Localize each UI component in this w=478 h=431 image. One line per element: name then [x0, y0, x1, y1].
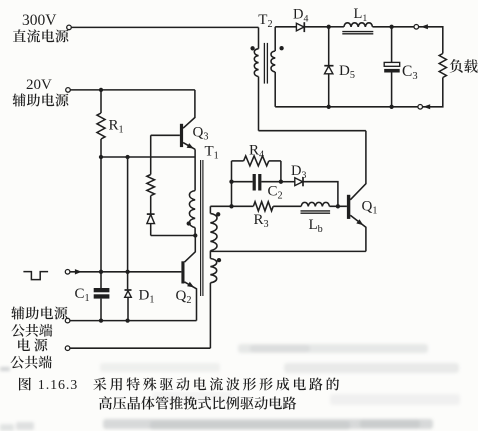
- resistor R4: [232, 143, 281, 166]
- wire L1 to C3 node: [373, 26, 414, 28]
- wire T2 secondary top: [275, 26, 296, 28]
- diode D3: [281, 163, 338, 206]
- transformer T1 secondary upper winding: [210, 206, 217, 251]
- arrow current into output: [421, 24, 428, 29]
- node T1 primary bottom: [193, 233, 197, 237]
- terminal drive input: [65, 270, 70, 275]
- wire 20V rail: [70, 89, 194, 91]
- phase dot T1 secondary upper: [216, 212, 220, 216]
- wire R4C2 left leg: [231, 161, 233, 206]
- transistor Q1: [347, 131, 378, 252]
- transformer T1 secondary lower winding: [210, 251, 216, 348]
- node C3 bottom: [389, 105, 393, 109]
- phase dot T1 primary: [187, 221, 191, 225]
- resistor R3: [253, 202, 273, 231]
- capacitor C3: [384, 27, 417, 107]
- wire chain to T1 primary bottom: [151, 235, 196, 237]
- node D5 top: [327, 25, 331, 29]
- wire D1 rail x127.6: [127, 157, 129, 289]
- terminal output plus: [414, 25, 419, 30]
- resistor load: [423, 54, 478, 107]
- svg-text:300V: 300V: [22, 12, 57, 29]
- wire emitter bus y157: [101, 156, 195, 158]
- caption figure number: [19, 377, 78, 393]
- wire 300V rail to T2 primary: [71, 26, 258, 28]
- inductor L1: [342, 6, 373, 34]
- transistor Q2: [176, 236, 197, 321]
- label 300V DC supply: [13, 12, 69, 43]
- transistor Q3: [151, 90, 209, 149]
- wire D4 to L1: [329, 26, 344, 28]
- node R1 bottom: [99, 155, 103, 159]
- caption line 1: [93, 377, 339, 390]
- arrow drive input: [75, 269, 82, 274]
- transformer T2 core: [264, 43, 267, 84]
- diode D5: [324, 27, 355, 107]
- wire Q3 base drop: [150, 135, 152, 174]
- terminal output minus: [418, 105, 423, 110]
- label T2: [258, 12, 272, 30]
- wire output to load top: [419, 27, 443, 54]
- terminal 300V: [67, 25, 72, 30]
- node D1 top: [125, 270, 129, 274]
- node C3 top: [389, 25, 393, 29]
- wire R3 to Lb: [273, 205, 301, 207]
- transformer T2 secondary winding: [271, 27, 275, 107]
- phase dot T2 primary: [250, 46, 254, 50]
- wire secondary bottom rail: [275, 106, 418, 108]
- capacitor C2: [232, 174, 283, 202]
- label T1: [205, 144, 219, 162]
- node 20V/R1 junction: [99, 88, 103, 92]
- label 20V auxiliary supply: [13, 77, 69, 106]
- wire chain mid: [150, 196, 152, 214]
- diode base chain: [147, 214, 155, 235]
- wire T1 center tap to Q1 emitter: [210, 250, 366, 252]
- terminal 20V: [66, 88, 71, 93]
- phase dot T2 secondary: [279, 46, 283, 50]
- diode D1: [125, 287, 155, 320]
- svg-text:1.16.3: 1.16.3: [38, 378, 78, 393]
- node D1 rail top: [125, 155, 129, 159]
- transformer T2 primary winding: [254, 27, 258, 130]
- node D5 bottom: [327, 105, 331, 109]
- inductor Lb: [301, 202, 331, 235]
- caption line 2: [99, 396, 296, 409]
- node D1 bottom: [125, 318, 129, 322]
- transformer T1 core: [201, 160, 203, 296]
- terminal power common: [65, 346, 70, 351]
- node R3 left junction: [229, 204, 233, 208]
- transformer T1 primary winding: [189, 149, 195, 235]
- node C1 top: [99, 270, 103, 274]
- wire Lb to Q1 base: [329, 205, 347, 207]
- wire auxiliary common row: [70, 320, 196, 322]
- resistor R1: [97, 90, 124, 157]
- arrow current from load: [423, 104, 430, 109]
- node C1 bottom: [99, 318, 103, 322]
- wire R4C2 right leg: [280, 161, 282, 182]
- wire drive input to Q2 base: [70, 271, 181, 273]
- node C2 right: [279, 180, 283, 184]
- phase dot T1 secondary lower: [217, 258, 221, 262]
- capacitor C1: [75, 286, 110, 321]
- wire C1 rail x101: [100, 157, 102, 288]
- diode D4: [293, 7, 329, 33]
- wire T1 to R3: [210, 205, 253, 207]
- pulse waveform symbol: [23, 272, 48, 280]
- wire power common row: [70, 347, 210, 349]
- svg-text:20V: 20V: [26, 77, 52, 93]
- node D3 junction at Q1 base: [336, 204, 340, 208]
- resistor base chain: [147, 175, 155, 196]
- terminal auxiliary common: [65, 318, 70, 323]
- label power common: [11, 338, 52, 368]
- label auxiliary supply common: [11, 306, 67, 336]
- wire T2 primary bottom to Q1 collector: [259, 130, 366, 132]
- node C2 left: [229, 180, 233, 184]
